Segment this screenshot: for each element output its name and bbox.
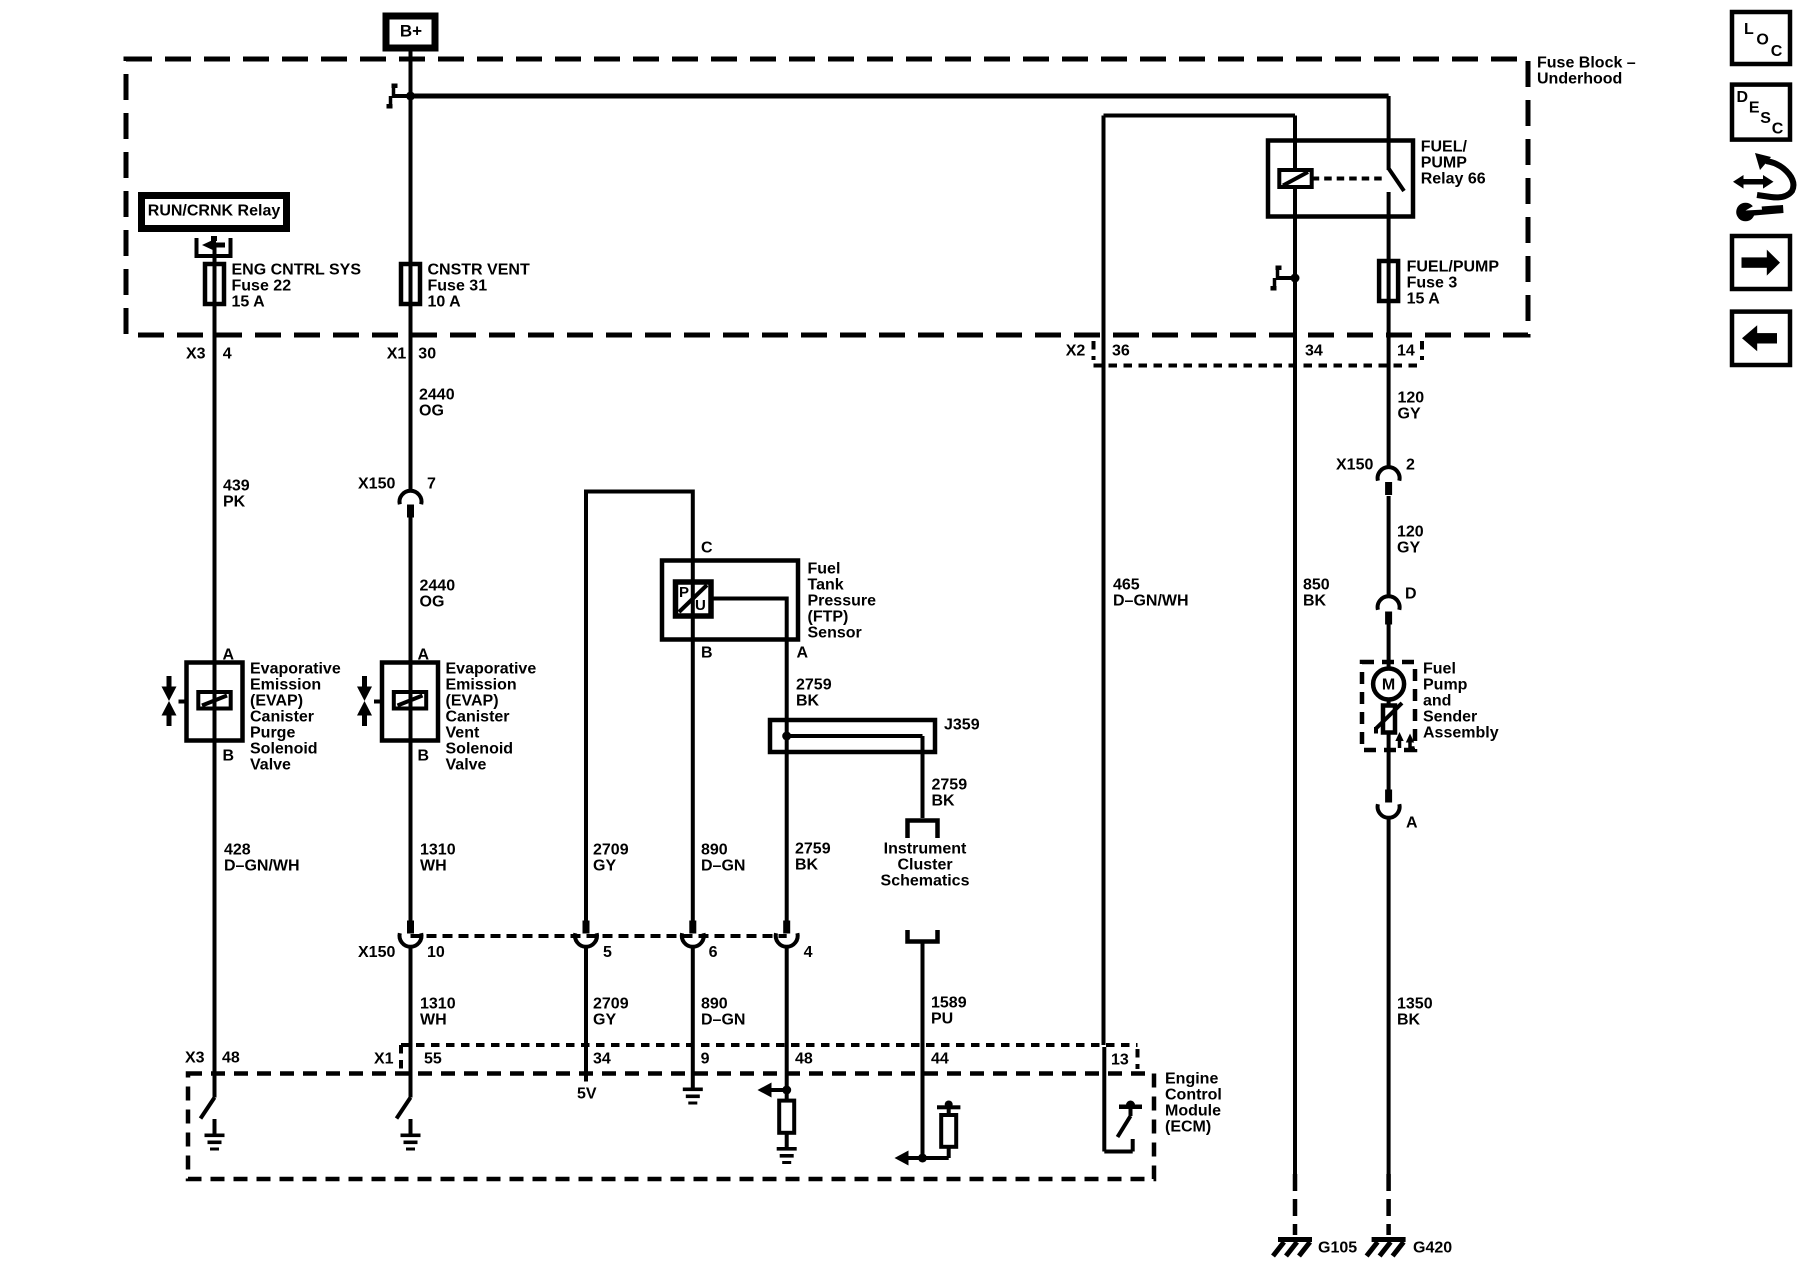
svg-text:BK: BK: [795, 857, 819, 874]
svg-text:OG: OG: [420, 594, 445, 611]
svg-text:Assembly: Assembly: [1423, 725, 1499, 742]
svg-text:C: C: [701, 540, 713, 557]
svg-text:B: B: [223, 748, 235, 765]
svg-text:6: 6: [709, 944, 718, 961]
wire RUN/CRNK relay through fuse 22 to ECM: [213, 247, 217, 1098]
fuel pump and sender assembly dashed box: [1362, 661, 1499, 750]
svg-text:34: 34: [1305, 343, 1323, 360]
wire label 1310 WH lower: [420, 996, 456, 1029]
wire label 850 BK: [1303, 577, 1330, 610]
svg-text:Instrument: Instrument: [884, 841, 967, 858]
svg-text:D–GN: D–GN: [701, 858, 745, 875]
label 5V at ECM pin 34: [577, 1086, 597, 1103]
wire coil feed drop: [1293, 116, 1297, 171]
svg-text:14: 14: [1397, 343, 1415, 360]
off-page connector from instrument cluster (bottom bracket): [908, 930, 938, 942]
svg-text:2440: 2440: [419, 387, 455, 404]
svg-text:L: L: [1744, 21, 1754, 38]
svg-text:O: O: [1756, 31, 1768, 48]
connector X2 pin labels: [1066, 343, 1415, 360]
svg-text:2759: 2759: [932, 777, 968, 794]
pull-up node dot at pin 44 resistor: [937, 1101, 960, 1116]
junction dot at B+ bus: [406, 92, 415, 101]
fuse block - underhood dashed box: [126, 55, 1636, 335]
svg-text:C: C: [1771, 43, 1783, 60]
svg-text:Sender: Sender: [1423, 709, 1477, 726]
wire label 2759 BK lower: [795, 841, 831, 874]
svg-text:34: 34: [593, 1051, 611, 1068]
svg-text:PU: PU: [931, 1011, 953, 1028]
wire FTP B to X150-6: [691, 639, 695, 921]
svg-text:G420: G420: [1413, 1240, 1452, 1257]
svg-text:FUEL/PUMP: FUEL/PUMP: [1407, 259, 1500, 276]
svg-text:Pump: Pump: [1423, 677, 1468, 694]
svg-text:C: C: [1772, 120, 1784, 137]
EVAP canister vent solenoid valve: [357, 647, 536, 774]
svg-text:WH: WH: [420, 858, 447, 875]
wire X150-6 to ECM pin 9: [691, 946, 695, 1089]
svg-text:Relay 66: Relay 66: [1421, 171, 1486, 188]
svg-text:E: E: [1749, 100, 1760, 117]
wire label 2759 BK at FTP A: [796, 677, 832, 710]
wire label 2709 GY lower: [593, 996, 629, 1029]
wire X150-7 through vent valve to X150-10: [409, 517, 413, 921]
svg-text:465: 465: [1113, 577, 1140, 594]
wire label 2440 OG upper: [419, 387, 455, 420]
wire label 890 D-GN lower: [701, 996, 745, 1029]
svg-text:D: D: [1405, 586, 1417, 603]
svg-text:B: B: [701, 645, 713, 662]
svg-text:4: 4: [804, 944, 813, 961]
svg-text:Canister: Canister: [250, 709, 314, 726]
wire X150-10 to ECM pin 55: [409, 946, 413, 1098]
svg-text:Solenoid: Solenoid: [250, 741, 318, 758]
junction dot ECM pin 44: [918, 1154, 927, 1163]
svg-text:2709: 2709: [593, 996, 629, 1013]
svg-text:(FTP): (FTP): [808, 609, 849, 626]
connector X150 pin 2 inline: [1336, 457, 1415, 495]
wire ECM pin 44 internal: [921, 1075, 925, 1158]
svg-text:GY: GY: [1398, 406, 1421, 423]
wire J359 internal bus: [787, 734, 923, 738]
wire X150-5 to ECM pin 34: [584, 946, 588, 1082]
wire label 120 GY upper: [1398, 390, 1425, 423]
fuse F22 ENG CNTRL SYS: [205, 262, 361, 311]
icon curl arrow: [1755, 153, 1793, 197]
resistor at ECM pin 44: [923, 1115, 957, 1158]
wire FTP A to J359: [785, 639, 789, 736]
wire label 428 D-GN/WH: [224, 842, 300, 875]
svg-text:Fuse 22: Fuse 22: [232, 278, 292, 295]
svg-text:1310: 1310: [420, 842, 456, 859]
svg-text:U: U: [695, 597, 706, 614]
svg-text:Canister: Canister: [446, 709, 510, 726]
fuse F3 FUEL/PUMP: [1379, 259, 1499, 308]
wire to G420 dashed tail: [1386, 1174, 1391, 1235]
EVAP canister purge solenoid valve: [162, 647, 341, 774]
svg-text:10 A: 10 A: [428, 294, 462, 311]
svg-text:48: 48: [795, 1051, 813, 1068]
svg-text:Fuse 3: Fuse 3: [1407, 275, 1458, 292]
svg-text:48: 48: [222, 1050, 240, 1067]
svg-text:120: 120: [1397, 524, 1424, 541]
svg-text:G105: G105: [1318, 1240, 1357, 1257]
wire cluster to ECM pin 44: [921, 942, 925, 1076]
svg-text:Emission: Emission: [446, 677, 517, 694]
ground G420: [1367, 1237, 1453, 1257]
svg-text:B: B: [418, 748, 430, 765]
svg-text:PUMP: PUMP: [1421, 155, 1468, 172]
arrow feed from RUN/CRNK relay: [202, 236, 225, 252]
svg-text:B+: B+: [400, 21, 422, 40]
wire label 465 D-GN/WH: [1113, 577, 1189, 610]
svg-text:10: 10: [427, 944, 445, 961]
wire X150-4 to ECM pin 48: [785, 946, 789, 1091]
splice pack J359: [770, 717, 980, 752]
wire J359 branch down: [921, 736, 925, 818]
svg-text:Fuel: Fuel: [808, 561, 841, 578]
label instrument cluster schematics: [881, 841, 970, 890]
connector D inline: [1378, 586, 1417, 625]
svg-text:Schematics: Schematics: [881, 873, 970, 890]
svg-text:Sensor: Sensor: [808, 625, 862, 642]
wire label 2440 OG lower: [420, 578, 456, 611]
svg-text:WH: WH: [420, 1012, 447, 1029]
svg-text:BK: BK: [1303, 593, 1327, 610]
svg-text:J359: J359: [944, 717, 980, 734]
svg-text:9: 9: [701, 1051, 710, 1068]
svg-text:13: 13: [1111, 1052, 1129, 1069]
icon adjust arrow: [1733, 175, 1774, 189]
svg-text:Evaporative: Evaporative: [250, 661, 341, 678]
wire ECM pin 13 to coil: [1102, 116, 1106, 1046]
wire label 1350 BK: [1397, 996, 1433, 1029]
icon back arrow box: [1732, 312, 1790, 365]
svg-text:30: 30: [418, 346, 436, 363]
svg-text:5: 5: [603, 944, 612, 961]
wire label 439 PK: [223, 478, 250, 511]
junction dot 850 BK: [1291, 274, 1300, 283]
wire sender to A connector: [1387, 734, 1391, 790]
svg-text:15 A: 15 A: [232, 294, 266, 311]
svg-text:PK: PK: [223, 494, 246, 511]
svg-text:Underhood: Underhood: [1537, 71, 1622, 88]
svg-text:and: and: [1423, 693, 1451, 710]
svg-text:Valve: Valve: [446, 757, 487, 774]
svg-text:X3: X3: [186, 346, 206, 363]
wire 5V jog horizontal: [586, 490, 693, 494]
wire motor to sender: [1387, 700, 1391, 707]
svg-text:S: S: [1760, 110, 1771, 127]
wire A to G420 solid: [1387, 817, 1391, 1175]
connector cup below RUN/CRNK relay: [195, 238, 233, 256]
svg-text:X150: X150: [358, 944, 395, 961]
node B+ battery feed: [386, 16, 435, 48]
wire label 1589 PU: [931, 995, 967, 1028]
svg-text:A: A: [1406, 815, 1418, 832]
label X3 pin 4 top: [186, 346, 232, 363]
svg-text:X2: X2: [1066, 343, 1086, 360]
icon DESC box: [1732, 85, 1790, 140]
svg-text:A: A: [797, 645, 809, 662]
svg-text:FUEL/: FUEL/: [1421, 139, 1468, 156]
svg-text:BK: BK: [796, 693, 820, 710]
connector X1 dotted line at ECM: [401, 1045, 1138, 1069]
ground at ECM pin X1-55: [401, 1134, 421, 1151]
clip connector at bus start: [387, 84, 413, 109]
ground at ECM pin X3-48: [205, 1134, 225, 1151]
engine control module dashed box: [188, 1071, 1222, 1179]
svg-text:D–GN/WH: D–GN/WH: [224, 858, 300, 875]
connector X150 pin 5: [575, 921, 612, 962]
FTP sensor pin labels: [701, 540, 809, 662]
svg-text:1310: 1310: [420, 996, 456, 1013]
svg-text:A: A: [223, 647, 235, 664]
ECM driver switch at pin X3-48: [201, 1075, 215, 1134]
svg-text:RUN/CRNK Relay: RUN/CRNK Relay: [148, 203, 281, 220]
svg-text:Valve: Valve: [250, 757, 291, 774]
icon LOC box: [1732, 12, 1790, 64]
icon wrench: [1736, 202, 1783, 222]
svg-text:GY: GY: [593, 858, 616, 875]
connector X150 pin 7 inline: [358, 476, 436, 518]
svg-text:X150: X150: [358, 476, 395, 493]
svg-text:Engine: Engine: [1165, 1071, 1218, 1088]
svg-text:2759: 2759: [796, 677, 832, 694]
ground below resistor pin 48: [777, 1147, 797, 1164]
svg-text:A: A: [418, 647, 430, 664]
svg-text:1589: 1589: [931, 995, 967, 1012]
wire label 120 GY lower: [1397, 524, 1424, 557]
wire through P/U (C to B): [691, 562, 695, 639]
svg-text:X3: X3: [185, 1050, 205, 1067]
svg-text:2: 2: [1406, 457, 1415, 474]
svg-text:15 A: 15 A: [1407, 291, 1441, 308]
svg-text:D–GN: D–GN: [701, 1012, 745, 1029]
connector X150 dashed row: [411, 934, 787, 938]
svg-text:(ECM): (ECM): [1165, 1119, 1211, 1136]
off-page connector to instrument cluster (top bracket): [908, 821, 938, 839]
motor M fuel pump: [1373, 669, 1404, 700]
relay coil: [1279, 170, 1311, 187]
connector X150 pin 4: [776, 921, 813, 962]
svg-text:OG: OG: [419, 403, 444, 420]
svg-text:36: 36: [1112, 343, 1130, 360]
svg-text:GY: GY: [1397, 540, 1420, 557]
wire relay coil feed horizontal: [1104, 114, 1296, 118]
wire X150-2 to D: [1387, 496, 1391, 598]
svg-text:2709: 2709: [593, 842, 629, 859]
wire P/U output to pin A: [711, 597, 787, 640]
float arrows: [1395, 732, 1414, 750]
svg-text:BK: BK: [932, 793, 956, 810]
arrow to internal circuit at pin 44: [895, 1151, 923, 1166]
svg-text:Purge: Purge: [250, 725, 295, 742]
fuse F31 CNSTR VENT: [401, 262, 530, 311]
svg-text:BK: BK: [1397, 1012, 1421, 1029]
svg-text:1350: 1350: [1397, 996, 1433, 1013]
RUN/CRNK Relay label box: [142, 196, 287, 229]
wire ECM pin 13 internal: [1104, 1047, 1132, 1152]
ECM pin labels: [185, 1050, 1129, 1069]
ground at ECM pin 9: [683, 1088, 703, 1105]
wire J359 to X150-4: [785, 736, 789, 921]
svg-text:428: 428: [224, 842, 251, 859]
svg-text:2440: 2440: [420, 578, 456, 595]
svg-text:120: 120: [1398, 390, 1425, 407]
svg-text:X1: X1: [374, 1051, 394, 1068]
svg-text:7: 7: [427, 476, 436, 493]
svg-text:Fuse Block –: Fuse Block –: [1537, 55, 1636, 72]
svg-text:(EVAP): (EVAP): [446, 693, 499, 710]
svg-text:890: 890: [701, 996, 728, 1013]
wire B+ bus horizontal: [411, 94, 1389, 99]
sender variable resistor: [1376, 703, 1402, 734]
wire label 2759 BK branch: [932, 777, 968, 810]
ground G105: [1273, 1237, 1357, 1257]
P/U transducer symbol: [676, 582, 712, 616]
ECM driver switch at pin X1-55: [397, 1075, 411, 1134]
svg-text:439: 439: [223, 478, 250, 495]
svg-text:850: 850: [1303, 577, 1330, 594]
FTP sensor box: [662, 561, 876, 642]
svg-text:D: D: [1737, 89, 1749, 106]
svg-text:M: M: [1382, 677, 1395, 694]
wire label 1310 WH upper: [420, 842, 456, 875]
wire D to fuel pump: [1387, 625, 1391, 671]
svg-text:Pressure: Pressure: [808, 593, 877, 610]
wire B+ vertical drop: [409, 48, 413, 492]
wire to G105 dashed tail: [1293, 1174, 1298, 1235]
svg-text:2759: 2759: [795, 841, 831, 858]
svg-text:CNSTR VENT: CNSTR VENT: [428, 262, 530, 279]
svg-text:(EVAP): (EVAP): [250, 693, 303, 710]
svg-text:55: 55: [424, 1051, 442, 1068]
label X1 pin 30 top: [387, 346, 436, 363]
wire FTP C drop: [691, 490, 695, 563]
wire label 2709 GY upper: [593, 842, 629, 875]
svg-text:4: 4: [223, 346, 232, 363]
svg-text:Fuel: Fuel: [1423, 661, 1456, 678]
relay coil dashed link: [1312, 177, 1386, 181]
svg-text:X150: X150: [1336, 457, 1373, 474]
label X150 at ECM row: [358, 944, 395, 961]
svg-text:Fuse 31: Fuse 31: [428, 278, 488, 295]
svg-text:GY: GY: [593, 1012, 616, 1029]
svg-text:Module: Module: [1165, 1103, 1221, 1120]
svg-text:890: 890: [701, 842, 728, 859]
svg-text:Evaporative: Evaporative: [446, 661, 537, 678]
svg-text:Solenoid: Solenoid: [446, 741, 514, 758]
junction dot ECM pin 48: [782, 1086, 791, 1095]
connector A inline: [1378, 790, 1418, 832]
arrow to internal circuit at pin 48: [758, 1083, 787, 1098]
relay switch: [1389, 96, 1404, 468]
icon forward arrow box: [1732, 236, 1790, 289]
svg-text:Tank: Tank: [808, 577, 844, 594]
svg-text:Control: Control: [1165, 1087, 1222, 1104]
connector X150 pin 10: [399, 921, 444, 962]
svg-text:5V: 5V: [577, 1086, 597, 1103]
relay FUEL/PUMP Relay 66 box: [1268, 139, 1486, 217]
resistor at ECM pin 48: [779, 1090, 794, 1148]
svg-text:44: 44: [931, 1051, 949, 1068]
svg-text:Emission: Emission: [250, 677, 321, 694]
junction dot in J359: [782, 732, 791, 741]
connector X2 dotted outline: [1094, 341, 1423, 366]
svg-text:D–GN/WH: D–GN/WH: [1113, 593, 1189, 610]
svg-text:X1: X1: [387, 346, 407, 363]
svg-text:P: P: [679, 584, 689, 601]
clip connector on 850 BK wire: [1271, 266, 1297, 291]
wire relay coil to ground run: [1293, 187, 1297, 1174]
connector X150 pin 6: [682, 921, 718, 962]
svg-text:ENG CNTRL SYS: ENG CNTRL SYS: [232, 262, 362, 279]
relay driver switch at ECM pin 13: [1118, 1101, 1143, 1138]
svg-text:Cluster: Cluster: [897, 857, 952, 874]
wire label 890 D-GN upper: [701, 842, 745, 875]
svg-text:Vent: Vent: [446, 725, 480, 742]
wire 5V vertical to X150-5: [584, 490, 588, 922]
